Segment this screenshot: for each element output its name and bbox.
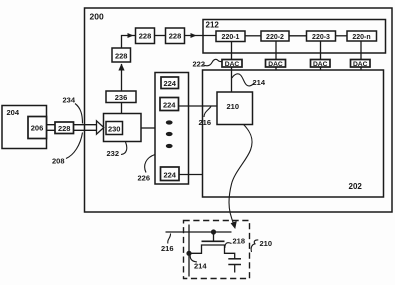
wire 220-3 down through DAC3 to box 202 (320, 41, 322, 70)
svg-text:220-2: 220-2 (266, 34, 284, 41)
wire 224 bottom to box 202 (179, 174, 203, 176)
wire 220-n down through DAC4 to box 202 (360, 41, 362, 70)
svg-text:214: 214 (253, 78, 266, 87)
label 208 with leader (52, 133, 83, 166)
label 210 lower with leader (251, 239, 272, 252)
capacitor plates (228, 259, 241, 273)
svg-text:218: 218 (233, 237, 246, 246)
DAC box 1 (222, 60, 242, 69)
DAC box 2 (266, 60, 286, 69)
svg-text:224: 224 (163, 101, 176, 110)
gate bar (202, 240, 225, 242)
svg-text:228: 228 (169, 32, 182, 41)
svg-text:DAC: DAC (268, 61, 283, 68)
svg-text:206: 206 (31, 124, 44, 133)
wavy arrow from box 210 to pixel cell (229, 125, 252, 230)
label 216 upper with leader (199, 107, 212, 128)
svg-text:214: 214 (194, 262, 207, 271)
select line (gate line) (166, 231, 232, 233)
outer box 200 (85, 8, 393, 212)
label 232 with leader (107, 142, 127, 158)
box 204 (2, 106, 47, 149)
ellipsis dots in 226 (166, 120, 173, 148)
wire 230 to 226 (141, 127, 155, 129)
svg-text:210: 210 (260, 239, 273, 248)
box 206 (28, 117, 47, 139)
label 218 with leader (225, 237, 245, 249)
svg-text:226: 226 (138, 174, 151, 183)
box 224 top (161, 77, 179, 89)
box 236 (106, 91, 136, 103)
transistor channel stepped path (189, 245, 235, 259)
svg-text:202: 202 (349, 182, 363, 191)
svg-text:224: 224 (163, 171, 176, 180)
box 210 (217, 92, 253, 125)
box 228 on bus (55, 122, 74, 134)
node gate junction dot (211, 229, 216, 234)
wire 228left up and right to 228 top-1 with arrow (122, 33, 136, 48)
box 202 display area (203, 70, 384, 197)
svg-text:234: 234 (63, 96, 76, 105)
wire 220-3 to 220-n (336, 35, 348, 37)
svg-text:228: 228 (58, 124, 71, 133)
svg-text:212: 212 (206, 21, 220, 30)
wire 224 middle to box 210 (179, 105, 218, 107)
wire 228 top-2 to 220-1 with arrow (185, 33, 217, 38)
svg-text:204: 204 (7, 108, 20, 117)
wire 220-1 to 220-2 (245, 35, 261, 37)
svg-text:220-3: 220-3 (312, 34, 330, 41)
svg-text:DAC: DAC (353, 61, 368, 68)
box 220-1 (216, 31, 245, 42)
svg-text:228: 228 (115, 52, 128, 61)
box 228 left (112, 48, 131, 62)
box 224 bottom (161, 167, 180, 181)
wire 236 down to 230 (121, 103, 123, 114)
box 220-n (347, 31, 377, 41)
DAC box 3 (311, 60, 331, 69)
box 220-2 (261, 31, 289, 41)
svg-text:200: 200 (90, 12, 104, 22)
svg-text:DAC: DAC (225, 61, 240, 68)
svg-text:210: 210 (227, 102, 240, 111)
label 222 with leader to DAC1 (193, 59, 223, 68)
bus double line 206 to 230 (47, 125, 97, 131)
bus open arrowhead (97, 121, 104, 134)
data line (vertical) (188, 225, 190, 277)
dashed pixel cell box (184, 221, 250, 279)
wire 220-2 to 220-3 (289, 35, 307, 37)
label 214 lower with leader (190, 256, 207, 271)
wire 228 top-1 to 228 top-2 (155, 35, 166, 37)
svg-text:220-1: 220-1 (222, 34, 240, 41)
node 214 junction dot (186, 251, 191, 256)
svg-text:230: 230 (108, 125, 121, 134)
box 224 middle (160, 98, 179, 111)
box 228 top-1 (136, 28, 155, 44)
label 234 with leader (63, 96, 83, 124)
box 230 outer (104, 114, 142, 142)
box 230 inner label box (106, 122, 123, 135)
label 214 with leader to DAC1-210 wire (232, 74, 266, 87)
label 216 lower with leader (161, 234, 174, 254)
wire 236 up to 228left with arrow (118, 64, 124, 92)
svg-text:222: 222 (193, 60, 206, 69)
wire 220-1 down through DAC1 to box 210 (231, 42, 233, 93)
svg-text:236: 236 (115, 93, 128, 102)
gate stem (213, 232, 215, 241)
svg-text:228: 228 (139, 32, 152, 41)
svg-text:232: 232 (107, 149, 120, 158)
svg-text:220-n: 220-n (352, 34, 370, 41)
svg-text:224: 224 (163, 79, 176, 88)
svg-text:208: 208 (52, 157, 65, 166)
box 220-3 (307, 31, 336, 41)
svg-text:216: 216 (199, 118, 212, 127)
svg-text:216: 216 (161, 244, 174, 253)
box 226 column (155, 73, 189, 185)
DAC box 4 (351, 60, 371, 69)
label 226 with leader (138, 155, 156, 183)
svg-text:DAC: DAC (313, 61, 328, 68)
box 228 top-2 (166, 28, 185, 44)
box 212 (203, 20, 386, 54)
wire 220-2 down through DAC2 to box 202 (275, 41, 277, 70)
